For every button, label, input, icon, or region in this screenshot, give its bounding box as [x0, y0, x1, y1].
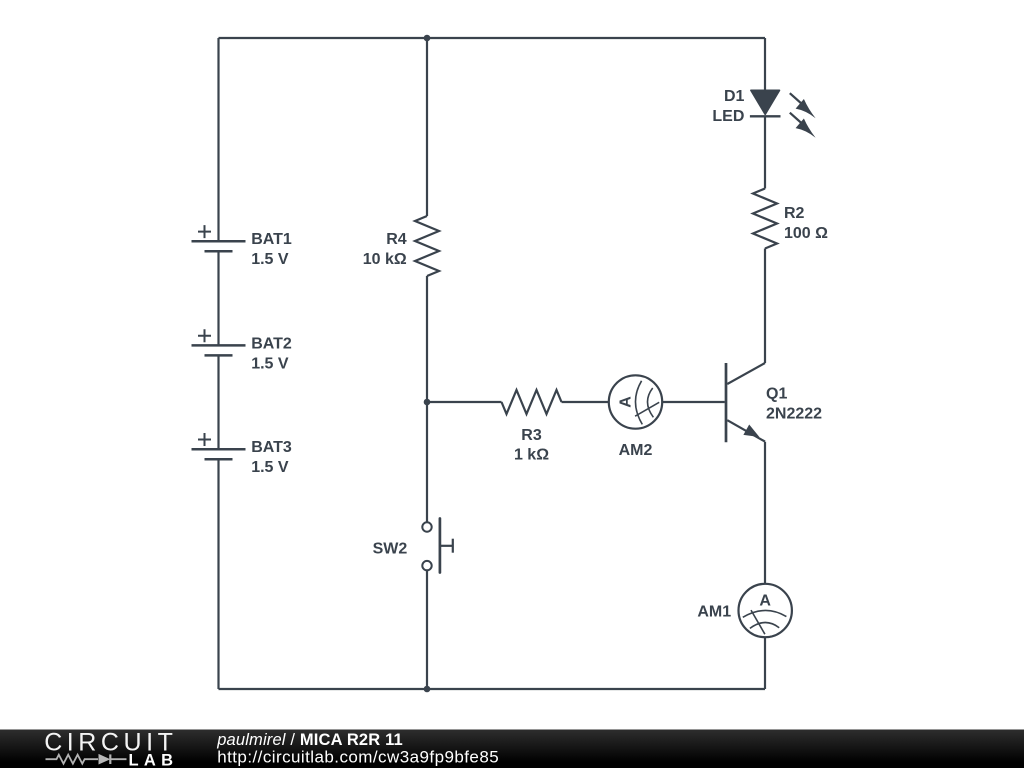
wire right rail above LED [764, 38, 766, 91]
svg-text:paulmirel / MICA R2R 11: paulmirel / MICA R2R 11 [216, 731, 403, 749]
svg-text:1.5 V: 1.5 V [251, 251, 289, 268]
svg-text:D1: D1 [724, 88, 745, 105]
wire right rail R2 to Q1 collector [764, 249, 766, 364]
node junction base row [424, 399, 431, 406]
logo diode triangle [99, 754, 111, 765]
wire left rail segment 3 [217, 355, 219, 449]
wire middle rail mid [426, 276, 428, 522]
node junction top rail [424, 35, 431, 42]
battery BAT1 [192, 225, 246, 251]
svg-text:R4: R4 [386, 231, 407, 248]
svg-text:2N2222: 2N2222 [766, 406, 822, 423]
wire base row segment 2 [562, 401, 609, 403]
svg-text:1.5 V: 1.5 V [251, 355, 289, 372]
wire left rail segment 4 [217, 459, 219, 689]
wire base row segment 1 [427, 401, 502, 403]
svg-text:1.5 V: 1.5 V [251, 459, 289, 476]
battery BAT3 [192, 433, 246, 459]
svg-text:AM1: AM1 [697, 604, 731, 621]
wire right rail AM1 to bottom [764, 637, 766, 689]
battery BAT2 [192, 329, 246, 355]
wire right rail Q1 emitter to AM1 [764, 442, 766, 584]
wire left rail segment 1 [217, 38, 219, 241]
LED D1 light arrow 2 shaft [790, 113, 803, 124]
svg-text:1 kΩ: 1 kΩ [514, 447, 549, 464]
svg-text:100 Ω: 100 Ω [784, 225, 828, 242]
wire top rail [219, 37, 766, 39]
wire left rail segment 2 [217, 251, 219, 345]
svg-text:BAT1: BAT1 [251, 231, 292, 248]
LED D1 light arrow 2 head [796, 119, 816, 138]
ammeter AM1 [739, 584, 792, 637]
node junction bottom rail [424, 686, 431, 693]
svg-text:LED: LED [712, 108, 744, 125]
svg-text:BAT2: BAT2 [251, 335, 292, 352]
LED D1 light arrow 1 head [796, 99, 816, 118]
svg-text:Q1: Q1 [766, 386, 787, 403]
resistor R4 [415, 216, 439, 276]
svg-text:BAT3: BAT3 [251, 439, 292, 456]
LED D1 cathode bar [750, 115, 781, 117]
resistor R3 [502, 390, 562, 414]
svg-text:A: A [618, 396, 635, 408]
svg-text:R3: R3 [521, 427, 542, 444]
footer bar [0, 730, 1024, 768]
switch SW2 pushbutton [422, 519, 453, 573]
LED D1 light arrow 1 shaft [790, 93, 803, 104]
ammeter AM2 [609, 375, 662, 428]
wire bottom rail [219, 688, 766, 690]
svg-text:A: A [759, 593, 771, 610]
svg-text:10 kΩ: 10 kΩ [363, 251, 407, 268]
logo resistor squiggle and diode [46, 754, 127, 764]
transistor Q1 2N2222 [726, 363, 765, 442]
svg-text:http://circuitlab.com/cw3a9fp9: http://circuitlab.com/cw3a9fp9bfe85 [217, 748, 499, 767]
svg-text:AM2: AM2 [619, 442, 653, 459]
transistor Q1 emitter arrow [743, 425, 759, 438]
LED D1 triangle [751, 90, 780, 114]
resistor R2 [753, 189, 777, 249]
wire middle rail top [426, 38, 428, 216]
wire right rail LED to R2 [764, 116, 766, 188]
wire base row segment 3 [662, 401, 725, 403]
svg-text:LAB: LAB [129, 751, 174, 768]
wire middle rail bottom [426, 570, 428, 689]
svg-text:R2: R2 [784, 205, 805, 222]
svg-text:SW2: SW2 [373, 541, 408, 558]
